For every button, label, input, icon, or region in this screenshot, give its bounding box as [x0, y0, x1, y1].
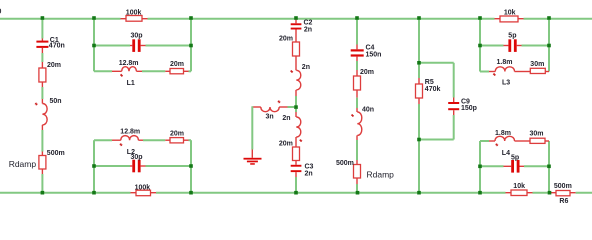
- svg-text:20m: 20m: [47, 62, 61, 69]
- svg-text:30p: 30p: [131, 33, 143, 40]
- svg-text:20m: 20m: [279, 36, 293, 43]
- svg-text:500m: 500m: [336, 160, 354, 167]
- svg-text:20m: 20m: [170, 61, 184, 68]
- svg-text:470n: 470n: [49, 43, 65, 50]
- svg-text:R6: R6: [559, 198, 568, 204]
- svg-text:100k: 100k: [135, 184, 151, 191]
- svg-text:2n: 2n: [305, 171, 313, 178]
- svg-text:500m: 500m: [47, 150, 65, 157]
- svg-text:470k: 470k: [425, 86, 441, 93]
- svg-text:20m: 20m: [360, 69, 374, 76]
- svg-text:R5: R5: [425, 79, 434, 86]
- svg-text:L4: L4: [502, 150, 510, 157]
- svg-text:30m: 30m: [530, 131, 544, 138]
- svg-text:1.8m: 1.8m: [497, 59, 513, 66]
- svg-text:40n: 40n: [362, 106, 374, 113]
- svg-text:500m: 500m: [554, 183, 572, 190]
- svg-text:L1: L1: [127, 80, 135, 87]
- svg-text:2n: 2n: [304, 26, 312, 33]
- svg-text:12.8m: 12.8m: [120, 128, 140, 135]
- svg-text:5p: 5p: [508, 33, 516, 40]
- svg-text:C4: C4: [366, 44, 375, 51]
- svg-text:3n: 3n: [266, 113, 274, 120]
- svg-text:20m: 20m: [170, 130, 184, 137]
- svg-text:Rdamp: Rdamp: [367, 170, 395, 180]
- svg-text:L3: L3: [502, 80, 510, 87]
- svg-text:1.8m: 1.8m: [495, 130, 511, 137]
- svg-text:30p: 30p: [131, 154, 143, 161]
- svg-text:2n: 2n: [282, 115, 290, 122]
- svg-text:5p: 5p: [511, 155, 519, 162]
- svg-text:30m: 30m: [530, 61, 544, 68]
- svg-text:12.8m: 12.8m: [119, 60, 139, 67]
- svg-text:150p: 150p: [461, 105, 477, 112]
- svg-text:2n: 2n: [302, 64, 310, 71]
- svg-text:10k: 10k: [504, 10, 516, 17]
- svg-text:Rdamp: Rdamp: [9, 159, 37, 169]
- svg-text:10k: 10k: [513, 183, 525, 190]
- svg-text:50n: 50n: [50, 98, 62, 105]
- svg-text:0: 0: [0, 9, 2, 16]
- svg-text:20m: 20m: [279, 141, 293, 148]
- svg-text:100k: 100k: [126, 10, 142, 17]
- svg-text:150n: 150n: [366, 52, 382, 59]
